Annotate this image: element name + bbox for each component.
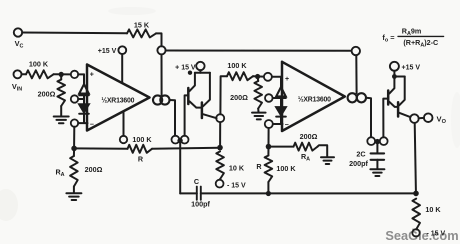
wire RA node to R (74, 147, 127, 149)
resistor 200 ohm input 1 (60, 74, 62, 79)
svg-text:100 K: 100 K (29, 59, 49, 68)
svg-text:SeaĠle.com: SeaĠle.com (385, 228, 458, 243)
transistor Q3 (387, 91, 390, 105)
svg-text:−: − (90, 121, 94, 128)
wire output2 to pin (366, 98, 371, 137)
resistor 100K comparator input (227, 72, 253, 80)
resistor 200 ohm input 2 (257, 77, 260, 82)
svg-text:C: C (194, 177, 199, 186)
transistor Q4 (397, 102, 400, 116)
wire pin B up to Q1 base (185, 95, 188, 135)
svg-text:RA9m: RA9m (402, 26, 422, 37)
pin circle out B (181, 136, 189, 144)
svg-text:R: R (138, 155, 144, 164)
svg-text:100 K: 100 K (227, 61, 247, 70)
terminal VO (424, 113, 433, 122)
pin circle buffer out (216, 114, 224, 122)
svg-text:½XR13600: ½XR13600 (101, 96, 134, 104)
svg-text:+: + (90, 72, 94, 79)
resistor 10K stage2 (412, 199, 420, 230)
svg-text:100 K: 100 K (132, 135, 152, 144)
capacitor 2C 200pf (371, 152, 385, 154)
+15V supply U1 (118, 46, 126, 54)
wire R to buffer node (152, 148, 220, 149)
svg-text:200Ω: 200Ω (230, 93, 248, 102)
+15V rail buffer 1 (195, 72, 210, 74)
wire VC to 15K (22, 32, 127, 35)
resistor R 100K (128, 145, 153, 153)
ground 200 ohm 2 (257, 109, 259, 113)
bias pin circle U1 (120, 136, 127, 143)
pin circle U2 -in (265, 120, 273, 128)
terminal -15V stage1 (219, 178, 221, 181)
terminal -15V stage2 (412, 229, 419, 236)
node circle VO (410, 114, 419, 123)
svg-text:R: R (256, 162, 262, 171)
svg-text:15 K: 15 K (134, 21, 150, 30)
transistor Q2 (201, 103, 204, 119)
wire down to capacitor 2C (376, 144, 378, 152)
node circle top (157, 46, 165, 54)
junction dot (59, 72, 64, 77)
wire down to capacitor C (179, 143, 181, 193)
wire pin B2 up to Q3 base (383, 99, 387, 138)
linearizing diode D3 (280, 77, 282, 87)
resistor RA 200 ohm (73, 148, 75, 156)
op-amp U2 half XR13600 (282, 62, 345, 131)
pin circle U1 -in (71, 119, 78, 126)
svg-text:−: − (285, 122, 289, 129)
pin circle diode bias 2 (265, 94, 273, 102)
svg-text:fo =: fo = (382, 33, 395, 44)
svg-text:+ 15 V: + 15 V (175, 64, 196, 71)
linearizing diode D1 (83, 74, 85, 84)
ground RA1 (73, 187, 75, 193)
svg-text:200Ω: 200Ω (38, 90, 56, 99)
svg-text:200Ω: 200Ω (300, 132, 318, 141)
bottom rail (201, 192, 416, 194)
+15V terminal buffer 2 (390, 62, 399, 71)
svg-text:+15 V: +15 V (402, 64, 421, 71)
pin circle U1 +in (71, 71, 78, 78)
wire output to pin (170, 100, 176, 136)
wire rail down to U2 output (355, 55, 357, 93)
node circle rail right (352, 47, 360, 55)
svg-text:10 K: 10 K (425, 205, 441, 214)
transistor Q1 (187, 88, 190, 104)
svg-text:100 K: 100 K (276, 164, 296, 173)
wire VO node down (415, 123, 416, 191)
pin circle out A (172, 136, 180, 144)
+15V terminal buffer 1 (196, 62, 204, 70)
svg-text:- 15 V: - 15 V (427, 231, 446, 238)
svg-text:+15 V: +15 V (98, 48, 117, 55)
pin circle diode bias (71, 95, 78, 102)
wire -in2 down (268, 128, 270, 144)
resistor 15K (127, 29, 156, 37)
svg-text:10 K: 10 K (229, 164, 245, 173)
svg-text:200pf: 200pf (349, 159, 368, 168)
output current-source symbol U1 (153, 95, 162, 104)
resistor R 100K stage2 (267, 147, 269, 156)
output current-source symbol U2 (348, 93, 357, 102)
resistor 10K stage1 (216, 151, 224, 179)
wire down to 10K (219, 122, 221, 145)
wire top rail (166, 50, 352, 52)
pin circle out2 A (367, 137, 375, 145)
wire up to 100K comparator input (220, 76, 227, 114)
svg-text:½XR13600: ½XR13600 (298, 95, 331, 103)
+15V rail buffer 2 (394, 76, 404, 78)
pin circle out2 B (380, 137, 388, 145)
pin circle U2 +in (264, 73, 272, 81)
svg-text:2C: 2C (356, 150, 365, 159)
wire node down to U1 output (161, 54, 163, 95)
svg-text:200Ω: 200Ω (85, 165, 103, 174)
capacitor C 100pf (180, 192, 197, 194)
linearizing diode D2 (83, 95, 85, 104)
op-amp U1 half XR13600 (87, 65, 150, 131)
ground RA2 (318, 145, 328, 156)
linearizing diode D4 (280, 98, 282, 107)
svg-text:+: + (285, 76, 289, 83)
wire 15K to node (156, 33, 162, 46)
wire to plus input (54, 73, 71, 75)
resistor RA 200 ohm stage2 (271, 146, 293, 148)
junction dot pins (177, 138, 182, 143)
ground 2C (376, 160, 378, 169)
junction dot pins 2 (375, 139, 380, 144)
resistor 100K input (22, 73, 27, 75)
wire -in down to RA (73, 127, 75, 146)
terminal VIN (14, 70, 22, 78)
svg-text:100pf: 100pf (191, 200, 210, 209)
svg-text:- 15 V: - 15 V (227, 182, 246, 189)
ground (60, 106, 62, 116)
